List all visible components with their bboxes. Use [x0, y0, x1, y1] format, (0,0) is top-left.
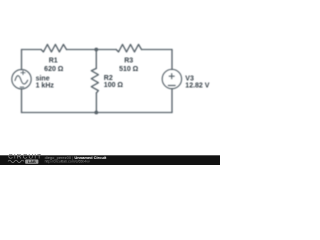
- minus sign inside V3: [168, 85, 175, 87]
- svg-text:510 Ω: 510 Ω: [119, 66, 139, 73]
- svg-text:100 Ω: 100 Ω: [104, 82, 124, 89]
- svg-text:http://circuitlab.com/c/65b4vv: http://circuitlab.com/c/65b4vv: [45, 159, 90, 163]
- svg-text:620 Ω: 620 Ω: [44, 66, 64, 73]
- resistor R2: [91, 68, 98, 93]
- svg-text:12.82 V: 12.82 V: [185, 83, 209, 90]
- wire middle vertical lower: [95, 93, 97, 113]
- svg-text:R1: R1: [49, 57, 58, 64]
- wire right vertical upper: [171, 50, 173, 70]
- wire middle vertical upper: [95, 50, 97, 69]
- CircuitLab logo LAB box: [25, 160, 38, 164]
- sine wave inside V1: [15, 76, 28, 84]
- wire top-left horizontal segment: [22, 49, 42, 51]
- svg-text:1 kHz: 1 kHz: [36, 83, 55, 90]
- footer watermark bar: [0, 155, 220, 165]
- resistor R3: [116, 44, 141, 52]
- svg-text:LAB: LAB: [28, 160, 36, 164]
- wire top-right segment: [142, 49, 173, 51]
- wire left vertical upper: [21, 50, 23, 70]
- wire top-middle segment: [67, 49, 117, 51]
- svg-text:R2: R2: [104, 75, 113, 82]
- minus sign inside V1: [20, 86, 24, 88]
- wire bottom horizontal: [22, 112, 173, 114]
- resistor R1: [41, 44, 66, 52]
- plus sign inside V3: [169, 74, 174, 79]
- CircuitLab logo sine squiggle: [8, 160, 24, 162]
- voltage source V1 sine circle: [12, 70, 31, 89]
- junction node bottom at R2: [94, 111, 98, 115]
- svg-text:V3: V3: [185, 75, 194, 82]
- wire right vertical lower: [171, 89, 173, 113]
- svg-text:sine: sine: [36, 75, 50, 82]
- junction node top at R2: [94, 48, 98, 52]
- plus sign inside V1: [21, 71, 25, 75]
- svg-text:R3: R3: [124, 57, 133, 64]
- voltage source V3 circle: [162, 69, 181, 88]
- wire left vertical lower: [21, 89, 23, 113]
